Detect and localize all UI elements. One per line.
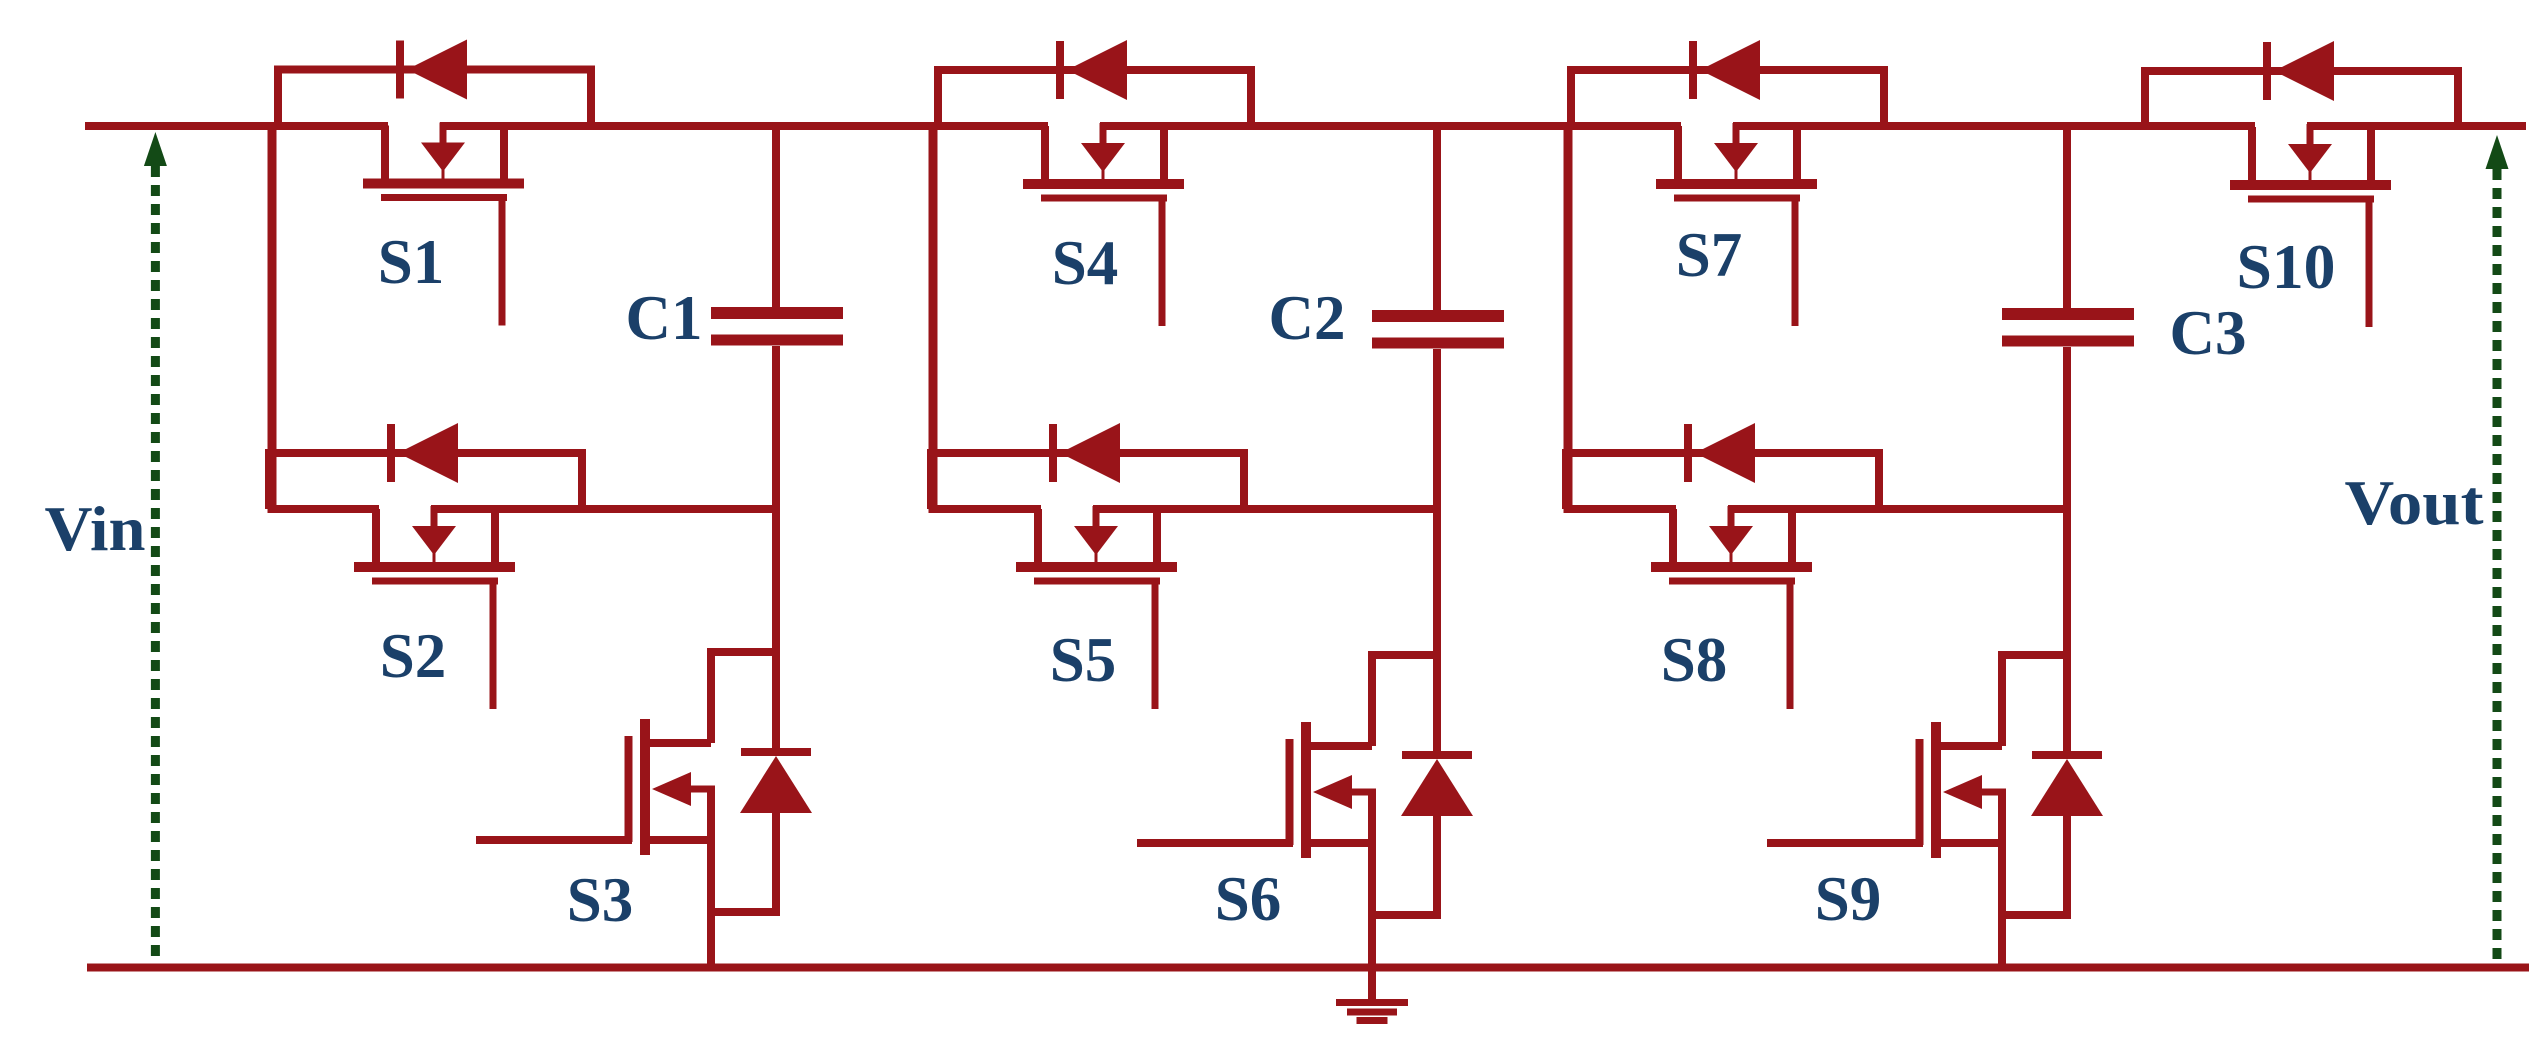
svg-text:C1: C1: [626, 283, 703, 353]
svg-text:S10: S10: [2237, 232, 2336, 302]
svg-text:S1: S1: [378, 227, 445, 297]
svg-text:S8: S8: [1661, 625, 1728, 695]
svg-text:S9: S9: [1815, 864, 1882, 934]
svg-text:Vin: Vin: [45, 494, 146, 564]
svg-text:S4: S4: [1052, 228, 1119, 298]
svg-text:S7: S7: [1676, 220, 1743, 290]
svg-text:S2: S2: [380, 621, 447, 691]
svg-text:S3: S3: [567, 865, 634, 935]
svg-text:Vout: Vout: [2345, 468, 2484, 538]
svg-text:S6: S6: [1215, 864, 1282, 934]
svg-text:C3: C3: [2170, 298, 2247, 368]
svg-text:C2: C2: [1269, 283, 1346, 353]
svg-text:S5: S5: [1050, 625, 1117, 695]
